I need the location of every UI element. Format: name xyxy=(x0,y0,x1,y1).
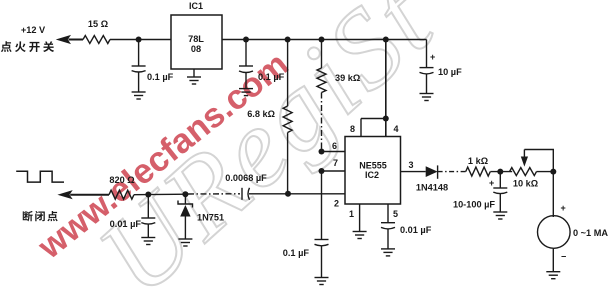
resistor 820 ohm xyxy=(109,175,135,199)
resistor 15 ohm xyxy=(83,19,110,44)
label 点火开关 xyxy=(1,41,54,52)
svg-text:15 Ω: 15 Ω xyxy=(88,19,108,29)
svg-text:39 kΩ: 39 kΩ xyxy=(335,73,360,83)
svg-text:+: + xyxy=(561,203,566,213)
wire node D down xyxy=(321,40,323,69)
wire IC1 output rail xyxy=(222,39,427,41)
svg-text:IC1: IC1 xyxy=(189,1,203,11)
wire 820 to zener node xyxy=(134,193,188,196)
wire 39k to pin6 node xyxy=(321,93,323,152)
wire IC1 ground pin xyxy=(193,69,195,77)
node G xyxy=(182,191,188,197)
capacitor 0.1uF (input of IC1) xyxy=(132,40,174,93)
node J xyxy=(550,169,556,175)
square wave symbol xyxy=(16,171,64,182)
pin 6 wire xyxy=(322,141,346,152)
node I xyxy=(497,169,503,175)
svg-text:0.1 µF: 0.1 µF xyxy=(147,72,174,82)
capacitor 10uF polarized xyxy=(420,40,463,94)
ground (IC1) xyxy=(187,77,201,84)
wire node E down to pin 4 xyxy=(385,40,387,137)
pin 3 wire xyxy=(401,160,426,172)
ground (timing cap) xyxy=(315,278,329,285)
node bridge xyxy=(383,116,389,122)
svg-text:1N751: 1N751 xyxy=(197,213,224,223)
svg-text:8: 8 xyxy=(350,124,355,134)
ground (zener) xyxy=(178,239,192,246)
svg-text:2: 2 xyxy=(334,199,339,209)
node H xyxy=(285,191,291,197)
svg-text:IC2: IC2 xyxy=(365,170,379,180)
ground (C2) xyxy=(239,89,253,96)
wire resistor to node A xyxy=(110,39,171,41)
ground (input cap) xyxy=(141,238,155,245)
node B xyxy=(243,37,249,43)
pin 1 stub xyxy=(349,204,360,232)
svg-text:6.8 kΩ: 6.8 kΩ xyxy=(247,109,275,119)
pin 7 wire xyxy=(322,158,346,171)
node E xyxy=(383,37,389,43)
capacitor 0.1uF (output of IC1) xyxy=(239,40,285,89)
resistor 1 kohm xyxy=(466,156,491,176)
label 断闭点 xyxy=(23,211,58,221)
svg-text:0.1 µF: 0.1 µF xyxy=(258,72,285,82)
svg-text:10 µF: 10 µF xyxy=(438,67,462,77)
diode 1N4148 xyxy=(416,165,448,192)
IC1 78L08 regulator xyxy=(171,1,222,69)
arrow to breaker points xyxy=(57,190,109,199)
capacitor 0.0068uF coupling xyxy=(225,173,267,200)
resistor 6.8 kohm xyxy=(247,106,292,133)
svg-text:0 ~1 MA: 0 ~1 MA xyxy=(573,228,608,238)
svg-text:10-100 µF: 10-100 µF xyxy=(453,200,495,210)
svg-text:6: 6 xyxy=(332,141,337,151)
wire node C down xyxy=(287,40,289,107)
wire coupling cap to pin 2 xyxy=(249,193,346,195)
wire 6.8k to pin2 line xyxy=(287,133,289,194)
ground (C1) xyxy=(132,92,146,99)
svg-text:08: 08 xyxy=(191,44,201,54)
svg-text:10 kΩ: 10 kΩ xyxy=(513,179,538,189)
svg-text:1 kΩ: 1 kΩ xyxy=(468,156,488,166)
wire down to meter xyxy=(552,172,554,217)
svg-text:+: + xyxy=(489,178,494,188)
wire bridge pin8-pin4 xyxy=(361,118,386,120)
wire 1k to pot xyxy=(490,171,512,173)
watermark red text www.elecfans.com xyxy=(31,45,296,267)
svg-text:0.0068 µF: 0.0068 µF xyxy=(225,173,267,183)
node F xyxy=(145,192,151,198)
svg-text:7: 7 xyxy=(333,158,338,168)
capacitor 0.01uF (pin5) xyxy=(381,223,432,249)
svg-text:4: 4 xyxy=(394,124,399,134)
svg-text:+: + xyxy=(430,52,435,62)
watermark gray outline text xyxy=(76,0,457,292)
svg-text:1N4148: 1N4148 xyxy=(416,183,448,193)
wire timing node down xyxy=(321,171,323,240)
pin 5 stub xyxy=(388,204,398,223)
ground (10uF) xyxy=(420,94,434,101)
ground (10-100uF) xyxy=(493,212,507,219)
pin 8 stub xyxy=(350,119,361,137)
wire dashed to coupling cap xyxy=(188,193,240,195)
potentiometer 10 kohm xyxy=(510,150,554,189)
wire pot to meter xyxy=(537,171,554,173)
node pin7 xyxy=(319,168,325,174)
wire meter to ground xyxy=(552,249,554,272)
NE555 IC2 xyxy=(345,137,401,205)
svg-text:5: 5 xyxy=(393,209,398,219)
svg-text:−: − xyxy=(561,252,566,262)
ground (pin1) xyxy=(353,232,367,239)
capacitor 0.1uF (timing) xyxy=(283,240,329,278)
zener diode 1N751 xyxy=(178,194,224,239)
svg-text:78L: 78L xyxy=(188,34,204,44)
node A xyxy=(136,37,142,43)
resistor 39 kohm xyxy=(317,68,360,92)
ground (pin5 cap) xyxy=(381,249,395,256)
svg-text:+12 V: +12 V xyxy=(21,25,46,35)
svg-text:0.1 µF: 0.1 µF xyxy=(283,248,310,258)
svg-text:0.01 µF: 0.01 µF xyxy=(400,225,432,235)
svg-text:NE555: NE555 xyxy=(359,161,387,171)
svg-text:820 Ω: 820 Ω xyxy=(109,175,134,185)
node D xyxy=(319,37,325,43)
node pin6 xyxy=(319,149,325,155)
node C xyxy=(285,37,291,43)
wire diode to 1k xyxy=(438,171,466,173)
svg-text:1: 1 xyxy=(349,209,354,219)
ground (meter) xyxy=(546,272,560,279)
svg-text:0.01 µF: 0.01 µF xyxy=(110,219,142,229)
capacitor 0.01uF (input) xyxy=(110,195,156,238)
capacitor 10-100uF polarized xyxy=(453,172,507,212)
meter 0-1 MA xyxy=(538,203,609,262)
svg-text:3: 3 xyxy=(408,160,413,170)
arrow to +12V supply xyxy=(56,35,83,44)
